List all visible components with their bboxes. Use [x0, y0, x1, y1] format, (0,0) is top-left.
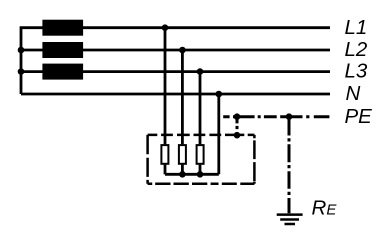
wire R3 bottom lead	[199, 165, 202, 175]
wire N neutral line	[21, 93, 330, 96]
svg-text:L2: L2	[345, 38, 368, 61]
wire L3 phase line	[21, 70, 330, 73]
svg-text:RE: RE	[312, 196, 338, 219]
equipment enclosure dashed box: left edge	[146, 135, 149, 184]
node tap junction on N	[216, 91, 223, 98]
node PE junction at enclosure drop	[234, 113, 241, 120]
wire PE drop to earth electrode (dash-dot)	[288, 118, 291, 214]
wire tap from L1 down to resistor R1	[164, 28, 167, 145]
wire tap from N down to star point bus	[217, 94, 220, 174]
node star point junction R2	[179, 171, 186, 178]
wire L1 phase line with left supply bus	[21, 28, 330, 94]
fuse F2 on L2	[42, 42, 83, 58]
wire L2 phase line	[21, 49, 330, 52]
node star point junction R3	[197, 171, 204, 178]
wire tap from L3 down to resistor R3	[199, 72, 202, 145]
resistor R1	[161, 145, 168, 164]
node bus junction on L3	[18, 68, 25, 75]
wire star point bus	[165, 173, 219, 176]
wire tap from L2 down to resistor R2	[181, 50, 184, 144]
node bus junction on L2	[18, 47, 25, 54]
fuse F1 on L1	[42, 20, 83, 36]
fuse F3 on L3	[42, 64, 83, 80]
wire R1 bottom lead	[164, 165, 167, 175]
resistor R2	[179, 145, 186, 164]
svg-text:L3: L3	[345, 60, 368, 83]
wire PE protective earth line (dash-dot)	[223, 115, 329, 118]
wire R2 bottom lead	[181, 165, 184, 175]
svg-text:N: N	[346, 82, 361, 105]
node tap junction on L3	[197, 68, 204, 75]
node PE junction at earth drop	[286, 113, 293, 120]
node tap junction on L1	[162, 24, 169, 31]
node tap junction on L2	[179, 47, 186, 54]
node PE junction on enclosure	[234, 132, 241, 139]
equipment enclosure dashed box: top edge	[148, 134, 255, 137]
ground earth electrode symbol	[277, 215, 303, 224]
equipment enclosure dashed box: right edge	[253, 135, 256, 184]
svg-text:PE: PE	[345, 105, 373, 128]
resistor R3	[197, 145, 204, 164]
wire PE drop to enclosure (dash-dot)	[236, 119, 239, 130]
equipment enclosure dashed box: bottom edge	[148, 182, 255, 185]
svg-text:L1: L1	[345, 16, 368, 39]
